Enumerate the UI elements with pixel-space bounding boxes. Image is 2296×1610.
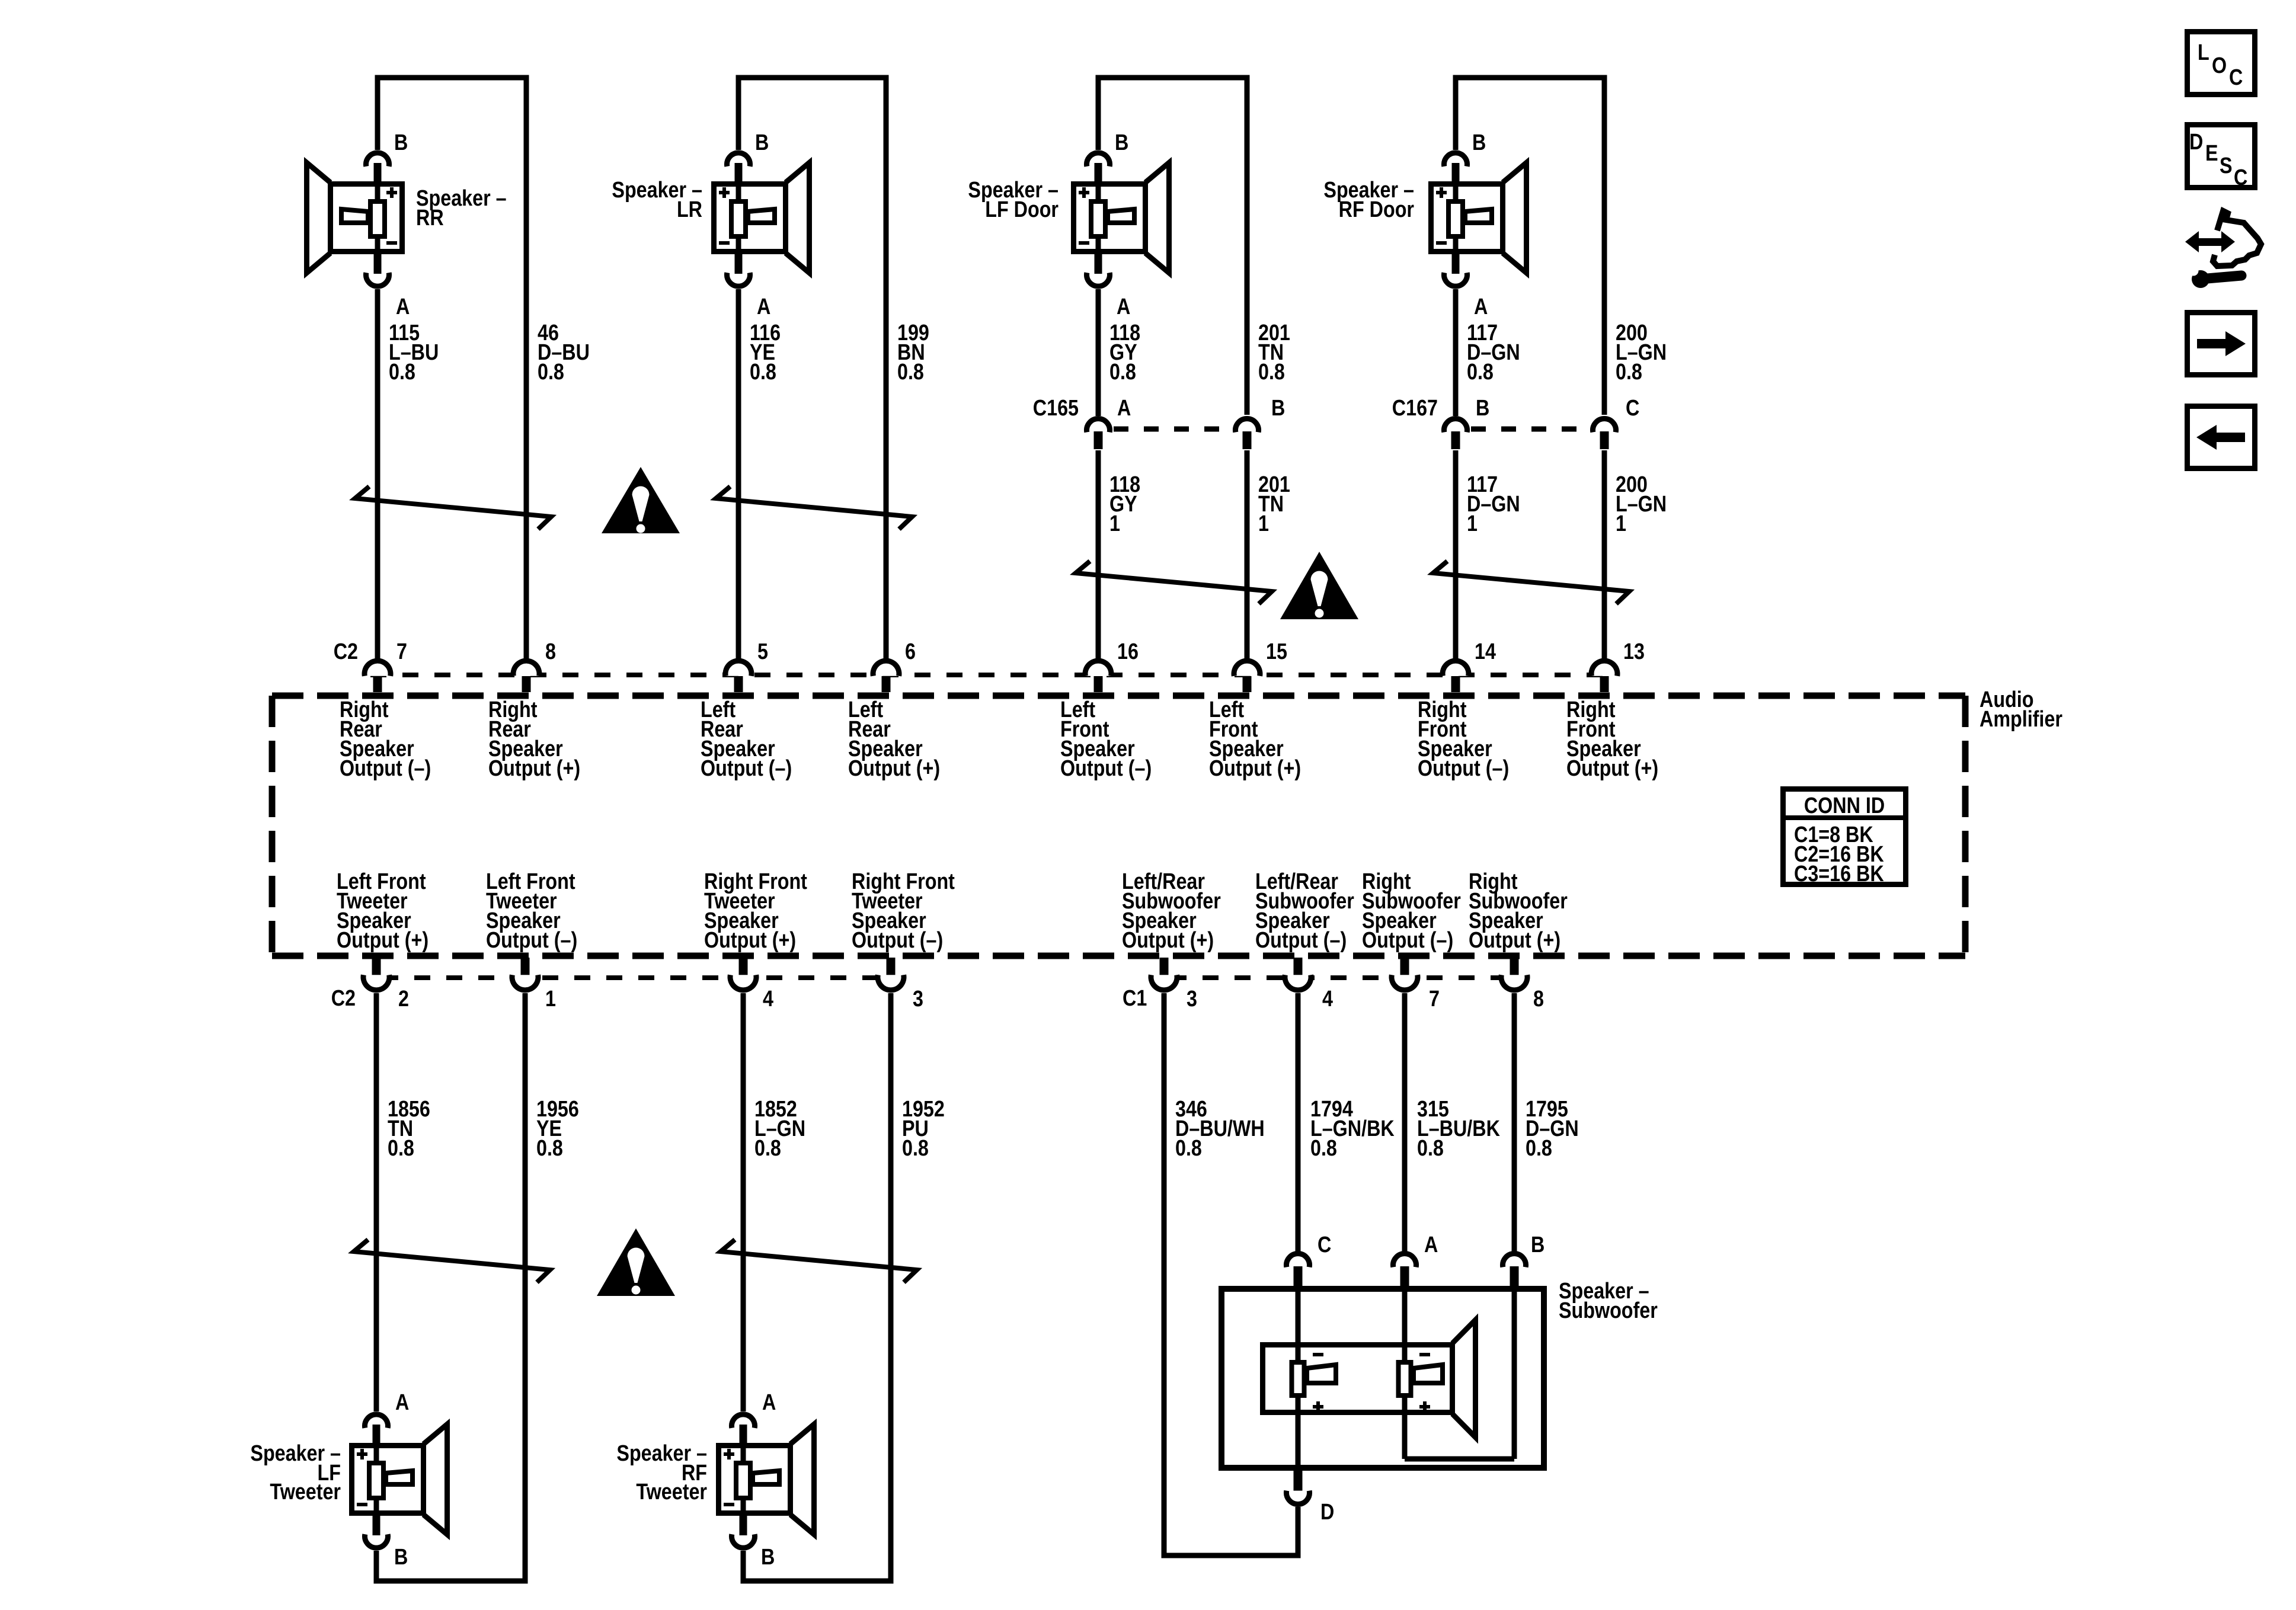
svg-text:0.8: 0.8 xyxy=(536,1136,563,1161)
svg-text:Subwoofer: Subwoofer xyxy=(1559,1298,1658,1323)
subwoofer pin D terminal xyxy=(1287,1491,1310,1505)
svg-text:B: B xyxy=(1531,1233,1544,1257)
subwoofer right voice coil magnet xyxy=(1399,1355,1443,1412)
wire 1794 L-GN/BK 0.8 xyxy=(1296,993,1301,1251)
amp connector C2 pin 14 terminal xyxy=(1443,661,1469,676)
connector C165 pin B terminal xyxy=(1236,418,1259,432)
connector C165 pin A xyxy=(1094,431,1103,449)
connector C165 pin A terminal xyxy=(1087,418,1110,432)
CONN ID table xyxy=(1780,789,1908,885)
amp connector C2 pin 5 terminal xyxy=(725,661,752,676)
svg-text:0.8: 0.8 xyxy=(1109,360,1136,385)
amp bottom pin 1 xyxy=(521,958,530,975)
svg-text:B: B xyxy=(1115,130,1128,155)
svg-text:B: B xyxy=(394,1545,408,1570)
wire circuit 117/200 speaker RF Door loop xyxy=(1456,78,1604,415)
connector C167 pin B terminal xyxy=(1444,418,1467,432)
svg-text:A: A xyxy=(395,1390,409,1415)
amp bottom pin 7 xyxy=(1400,958,1409,975)
amp connector C2 pin 6 terminal xyxy=(873,661,899,676)
amp bottom pin 4 xyxy=(1294,958,1303,975)
svg-text:3: 3 xyxy=(1187,987,1197,1012)
svg-text:B: B xyxy=(394,130,408,155)
svg-text:A: A xyxy=(1424,1233,1438,1257)
amp connector C2 pin 15 xyxy=(1243,676,1252,692)
amp connector C2 pin 13 xyxy=(1600,676,1609,692)
svg-text:1: 1 xyxy=(1467,511,1478,536)
svg-text:C1: C1 xyxy=(1123,986,1147,1011)
connector C165 pin B xyxy=(1243,431,1252,449)
twisted pair mark wires 117/200 xyxy=(1433,561,1629,604)
svg-text:Output (+): Output (+) xyxy=(1469,928,1560,953)
svg-text:Output (–): Output (–) xyxy=(486,928,577,953)
svg-text:Amplifier: Amplifier xyxy=(1980,707,2062,732)
subwoofer pin B xyxy=(1510,1266,1519,1286)
svg-text:0.8: 0.8 xyxy=(754,1136,781,1161)
svg-text:7: 7 xyxy=(396,639,407,664)
warning triangle 1 xyxy=(602,467,680,533)
svg-text:Output (–): Output (–) xyxy=(1362,928,1453,953)
subwoofer internal wire C-D xyxy=(1296,1286,1301,1471)
wire 346 D-BU/WH 0.8 loop xyxy=(1164,993,1298,1555)
svg-text:C: C xyxy=(2229,65,2243,90)
svg-text:S: S xyxy=(2220,153,2233,178)
svg-text:Output (+): Output (+) xyxy=(1122,928,1214,953)
svg-text:0.8: 0.8 xyxy=(1310,1136,1337,1161)
amp connector C1 dotted line xyxy=(1171,975,1507,980)
icon connector repair (wrench) xyxy=(2189,266,2242,289)
amp bottom pin 3 terminal xyxy=(878,975,904,990)
amp bottom pin 8 xyxy=(1510,958,1519,975)
amp connector C2 pin 8 terminal xyxy=(513,661,539,676)
svg-text:RR: RR xyxy=(416,206,444,231)
connector C167 pin C terminal xyxy=(1593,418,1616,432)
amp connector C2 pin 16 terminal xyxy=(1085,661,1111,676)
subwoofer internal wire A xyxy=(1402,1286,1408,1459)
svg-text:B: B xyxy=(1271,396,1285,421)
svg-text:Output (–): Output (–) xyxy=(701,756,792,781)
amp bottom pin 2 terminal xyxy=(363,975,389,990)
warning triangle 2 xyxy=(1280,552,1358,619)
speaker RR xyxy=(307,153,402,286)
twisted pair mark wires 116/199 xyxy=(716,486,912,529)
svg-text:0.8: 0.8 xyxy=(1258,360,1285,385)
amp connector C2 pin 7 terminal xyxy=(364,661,391,676)
icon connector repair (component outline) xyxy=(2213,211,2261,266)
svg-text:E: E xyxy=(2205,141,2218,166)
amp connector C2 pin 13 terminal xyxy=(1591,661,1617,676)
icon connector repair (double arrow) xyxy=(2185,231,2235,252)
svg-text:8: 8 xyxy=(1533,987,1544,1012)
twisted pair mark wires 1856/1956 xyxy=(354,1240,550,1282)
svg-text:A: A xyxy=(396,295,410,319)
wire 116 YE 0.8 xyxy=(736,289,741,661)
twisted pair mark wires 115/46 xyxy=(355,486,551,529)
twisted pair mark wires 1852/1952 xyxy=(721,1240,917,1282)
wire 201 TN 1 xyxy=(1245,450,1250,661)
svg-text:0.8: 0.8 xyxy=(1616,360,1642,385)
svg-text:Output (+): Output (+) xyxy=(337,928,428,953)
svg-text:0.8: 0.8 xyxy=(1417,1136,1444,1161)
wire 115 L-BU 0.8 xyxy=(375,289,380,661)
svg-text:B: B xyxy=(1476,396,1489,421)
speaker LR xyxy=(714,153,810,286)
icon LOC box xyxy=(2188,32,2255,95)
svg-text:5: 5 xyxy=(757,639,768,664)
amp connector C2 pin 5 xyxy=(734,676,743,692)
svg-text:Output (+): Output (+) xyxy=(488,756,580,781)
amp connector C2 top dotted line xyxy=(370,673,1612,677)
svg-text:Output (–): Output (–) xyxy=(1060,756,1152,781)
amp connector C2 pin 15 terminal xyxy=(1234,661,1260,676)
amp connector C2 pin 16 xyxy=(1094,676,1103,692)
svg-text:B: B xyxy=(1472,130,1486,155)
svg-text:C3=16 BK: C3=16 BK xyxy=(1794,862,1884,886)
subwoofer pin D xyxy=(1294,1471,1303,1491)
subwoofer internal wire B xyxy=(1512,1286,1517,1459)
amp bottom pin 2 xyxy=(372,958,381,975)
svg-text:8: 8 xyxy=(545,639,556,664)
subwoofer left/rear voice coil magnet xyxy=(1292,1355,1336,1412)
svg-text:1: 1 xyxy=(1616,511,1626,536)
svg-text:Output (–): Output (–) xyxy=(340,756,431,781)
amp connector C2 pin 6 xyxy=(882,676,891,692)
svg-text:Tweeter: Tweeter xyxy=(270,1480,341,1505)
wire 118 GY 0.8 xyxy=(1096,289,1101,416)
svg-text:Output (+): Output (+) xyxy=(848,756,940,781)
wire 117 D-GN 1 xyxy=(1453,450,1459,661)
svg-text:B: B xyxy=(761,1545,775,1570)
svg-text:0.8: 0.8 xyxy=(750,360,776,385)
svg-text:0.8: 0.8 xyxy=(389,360,415,385)
amp bottom pin 3 terminal xyxy=(1151,975,1177,990)
svg-text:Output (–): Output (–) xyxy=(852,928,943,953)
svg-text:C2: C2 xyxy=(331,986,356,1011)
svg-text:Output (–): Output (–) xyxy=(1418,756,1509,781)
connector C167 pin C xyxy=(1600,431,1609,449)
svg-text:RF Door: RF Door xyxy=(1339,197,1415,222)
wire 315 L-BU/BK 0.8 xyxy=(1402,993,1408,1251)
connector C167 dashed line xyxy=(1471,427,1589,432)
svg-text:A: A xyxy=(1117,295,1130,319)
amp connector C2 pin 14 xyxy=(1451,676,1460,692)
svg-text:4: 4 xyxy=(1322,987,1333,1012)
svg-text:D: D xyxy=(1320,1500,1334,1525)
svg-text:Output (+): Output (+) xyxy=(704,928,796,953)
wire circuit 115/46 speaker RR loop xyxy=(378,78,526,661)
speaker RF Tweeter xyxy=(719,1414,814,1548)
warning triangle 3 xyxy=(597,1228,675,1296)
amp bottom pin 3 xyxy=(1160,958,1169,975)
svg-text:L: L xyxy=(2198,40,2209,65)
speaker RF Door xyxy=(1431,153,1527,286)
amp connector C2 pin 7 xyxy=(373,676,382,692)
subwoofer driver frame xyxy=(1263,1320,1476,1438)
svg-text:15: 15 xyxy=(1266,639,1287,664)
speaker Subwoofer enclosure box xyxy=(1221,1289,1544,1468)
amp bottom pin 4 terminal xyxy=(1285,975,1311,990)
svg-text:0.8: 0.8 xyxy=(1175,1136,1202,1161)
subwoofer pin A xyxy=(1400,1266,1409,1286)
svg-text:13: 13 xyxy=(1623,639,1645,664)
svg-text:1: 1 xyxy=(1109,511,1120,536)
amp bottom pin 4 terminal xyxy=(730,975,756,990)
svg-text:LF Door: LF Door xyxy=(985,197,1059,222)
subwoofer pin A terminal xyxy=(1393,1253,1416,1267)
connector C167 pin B xyxy=(1451,431,1460,449)
wire 118 GY 1 xyxy=(1096,450,1101,661)
svg-text:1: 1 xyxy=(545,987,556,1012)
svg-text:1: 1 xyxy=(1258,511,1269,536)
svg-text:14: 14 xyxy=(1475,639,1496,664)
wire 1795 D-GN 0.8 xyxy=(1512,993,1517,1251)
svg-text:0.8: 0.8 xyxy=(388,1136,414,1161)
svg-text:0.8: 0.8 xyxy=(1467,360,1494,385)
svg-text:0.8: 0.8 xyxy=(538,360,564,385)
amp bottom pin 3 xyxy=(887,958,896,975)
svg-text:2: 2 xyxy=(398,987,409,1012)
svg-text:Output (+): Output (+) xyxy=(1209,756,1301,781)
svg-text:Output (–): Output (–) xyxy=(1255,928,1347,953)
svg-text:A: A xyxy=(1474,295,1488,319)
wire 1852 L-GN 0.8 xyxy=(741,993,746,1411)
icon DESC box xyxy=(2188,125,2255,188)
speaker LF Door xyxy=(1074,153,1169,286)
svg-text:B: B xyxy=(755,130,769,155)
svg-text:LR: LR xyxy=(677,197,702,222)
twisted pair mark wires 118/201 xyxy=(1076,561,1272,604)
wire 1952 PU 0.8 loop xyxy=(743,993,891,1581)
svg-text:C167: C167 xyxy=(1392,396,1438,421)
svg-text:16: 16 xyxy=(1117,639,1139,664)
svg-text:C: C xyxy=(1626,396,1639,421)
svg-text:0.8: 0.8 xyxy=(902,1136,929,1161)
wire 1856 TN 0.8 xyxy=(374,993,379,1411)
wire 200 L-GN 1 xyxy=(1602,450,1607,661)
wire circuit 116/199 speaker LR loop xyxy=(738,78,886,661)
amp bottom pin 7 terminal xyxy=(1392,975,1418,990)
icon forward arrow box xyxy=(2188,313,2255,375)
icon back arrow box xyxy=(2188,406,2255,469)
connector C165 dashed line xyxy=(1114,427,1232,432)
svg-text:A: A xyxy=(757,295,770,319)
amp bottom pin 4 xyxy=(739,958,748,975)
svg-text:D: D xyxy=(2189,130,2203,155)
svg-text:6: 6 xyxy=(905,639,916,664)
subwoofer pin B terminal xyxy=(1502,1253,1526,1267)
svg-text:3: 3 xyxy=(913,987,923,1012)
svg-text:O: O xyxy=(2212,53,2227,78)
amp bottom pin 8 terminal xyxy=(1501,975,1527,990)
svg-text:C: C xyxy=(1318,1233,1331,1257)
speaker LF Tweeter xyxy=(352,1414,447,1548)
svg-text:A: A xyxy=(1117,396,1131,421)
amp connector C2 pin 8 xyxy=(522,676,531,692)
subwoofer pin C xyxy=(1294,1266,1303,1286)
wire circuit 118/201 speaker LF Door loop xyxy=(1098,78,1247,415)
svg-text:Tweeter: Tweeter xyxy=(636,1480,707,1505)
svg-text:CONN ID: CONN ID xyxy=(1804,793,1885,818)
subwoofer internal wire A-B bottom link xyxy=(1405,1457,1514,1462)
subwoofer pin C terminal xyxy=(1287,1253,1310,1267)
svg-text:7: 7 xyxy=(1429,987,1440,1012)
wire 117 D-GN 0.8 xyxy=(1453,289,1459,416)
svg-text:0.8: 0.8 xyxy=(1526,1136,1552,1161)
svg-text:4: 4 xyxy=(763,987,773,1012)
svg-text:0.8: 0.8 xyxy=(897,360,924,385)
amp bottom pin 1 terminal xyxy=(512,975,538,990)
svg-text:C2: C2 xyxy=(334,639,358,664)
audio amplifier U1 dashed box xyxy=(272,696,1965,956)
wire 1956 YE 0.8 loop xyxy=(376,993,525,1581)
svg-text:C: C xyxy=(2234,165,2247,190)
svg-text:Output (+): Output (+) xyxy=(1566,756,1658,781)
amp connector C2 bottom dotted line xyxy=(382,975,886,980)
svg-text:A: A xyxy=(762,1390,776,1415)
svg-text:C165: C165 xyxy=(1033,396,1079,421)
